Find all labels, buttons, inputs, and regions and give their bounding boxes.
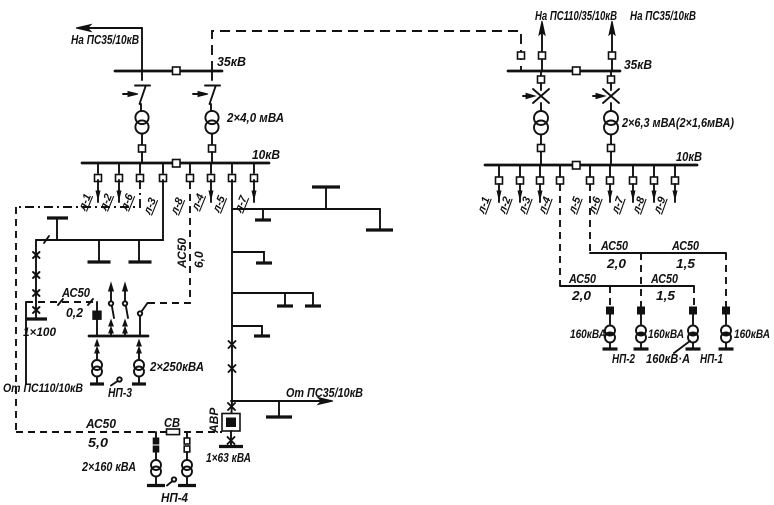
- wire: dashed tie from left 35kV bus to right substation: [212, 31, 521, 71]
- load tap T at x=99: [88, 240, 111, 262]
- ticks on trunk: [228, 341, 236, 410]
- load tap T at x=285: [277, 293, 293, 306]
- breaker below T2: [209, 145, 216, 152]
- svg-text:10кВ: 10кВ: [676, 149, 702, 164]
- wire: dashed drop at x=641: [640, 253, 642, 307]
- switch S3 to AC50 6,0 at x=140: [138, 303, 148, 336]
- wire: dash-dot from feeder l-6 down-left to margin: [16, 180, 140, 207]
- feeder l-2: [97, 163, 122, 213]
- transformer drop NP-3 #2 at x=139: [132, 340, 146, 384]
- NP-4 drop #2 at x=187: [178, 432, 196, 486]
- svg-text:5,0: 5,0: [88, 435, 109, 450]
- feeder r l-9: [651, 165, 678, 216]
- transformer branch T3 right (x=541): [523, 71, 549, 165]
- wire: lower AC50 line: [560, 285, 694, 287]
- fuse-disconnector X: [533, 89, 549, 103]
- svg-text:На ПС35/10кВ: На ПС35/10кВ: [71, 32, 139, 47]
- svg-text:1×63 кВА: 1×63 кВА: [206, 450, 251, 465]
- consumer unit NP at x=726: [719, 307, 734, 349]
- svg-text:10кВ: 10кВ: [252, 147, 280, 162]
- transformer branch T4 right (x=611): [593, 71, 619, 165]
- feeder l-6: [118, 163, 143, 213]
- wire: riser to PS110/35/10kV with up arrow: [539, 21, 546, 71]
- breaker on 10kV left bus: [173, 160, 181, 168]
- feeder r l-5: [566, 165, 593, 216]
- wire: dashed from l-5 down: [589, 184, 591, 253]
- svg-text:2×4,0 мВА: 2×4,0 мВА: [226, 110, 284, 125]
- svg-text:1,5: 1,5: [656, 288, 676, 303]
- AVR device (square in square, filled): [222, 414, 240, 432]
- wire: l-5 trunk: [231, 180, 233, 401]
- svg-text:2×250кВА: 2×250кВА: [149, 359, 204, 374]
- svg-text:6,0: 6,0: [192, 251, 206, 268]
- bus 35kV left: [115, 70, 222, 73]
- svg-text:НП-3: НП-3: [108, 385, 133, 400]
- svg-text:АВР: АВР: [207, 407, 221, 434]
- load tap T at x=279 under arrow line: [266, 401, 292, 417]
- svg-text:35кВ: 35кВ: [217, 54, 246, 69]
- svg-text:На ПС35/10кВ: На ПС35/10кВ: [630, 8, 696, 23]
- load tap T on dash line: [47, 218, 68, 240]
- bus 10kV left: [82, 162, 269, 165]
- branch B1 at y=209: [232, 208, 380, 210]
- load tap T up at x=326: [312, 187, 340, 209]
- svg-text:АС50: АС50: [61, 285, 91, 300]
- branch B2 at y=252: [232, 252, 272, 263]
- bus 35kV right: [508, 70, 620, 73]
- svg-text:1×100: 1×100: [23, 325, 56, 339]
- feeder l-7: [232, 163, 257, 215]
- svg-text:1,5: 1,5: [676, 256, 696, 271]
- svg-text:НП-1: НП-1: [700, 351, 723, 366]
- tick on line: [44, 236, 49, 243]
- feeder l-8: [168, 163, 193, 217]
- wire: upper AC50 line: [590, 252, 726, 254]
- svg-text:На ПС110/35/10кВ: На ПС110/35/10кВ: [535, 8, 617, 23]
- wire: dashed AC50 5,0 line to AVR: [16, 431, 222, 433]
- wire: riser from arrow to 35kV bus: [141, 28, 143, 71]
- bus NP-3: [89, 335, 148, 338]
- svg-text:АС50: АС50: [650, 271, 678, 286]
- svg-text:АС50: АС50: [600, 238, 628, 253]
- section breaker SV: [167, 429, 180, 435]
- wire: left margin dashed riser: [15, 207, 17, 432]
- feeder l-4: [189, 163, 214, 213]
- line AC50 0,2 dashed: [26, 301, 97, 303]
- transformer 1x63 kVA below AVR: [219, 431, 243, 447]
- wire: riser to PS35/10kV with up arrow: [609, 21, 616, 71]
- consumer unit NP at x=693: [686, 307, 701, 349]
- transformer T1 2x4.0MVA: [135, 111, 148, 124]
- disconnector QS1: [135, 71, 150, 111]
- fuse-disconnector X: [603, 89, 619, 103]
- svg-text:От ПС35/10кВ: От ПС35/10кВ: [286, 385, 363, 400]
- feeder l-5: [210, 163, 235, 215]
- wire: feeder l-3 trunk down and left: [36, 180, 163, 240]
- breaker on dashed tie entry: [518, 52, 525, 59]
- svg-text:АС50: АС50: [671, 238, 699, 253]
- wire: line to PS35/10kV with arrow: [76, 25, 142, 32]
- wire: feed from PS110/10kV riser: [25, 302, 27, 384]
- feeder r l-3: [516, 165, 543, 216]
- feeder r l-2: [496, 165, 523, 216]
- sectionalizer hook between NP-3 transformers: [111, 377, 122, 385]
- transformer branch T1 left (x=142): [123, 71, 150, 163]
- svg-text:От ПС110/10кВ: От ПС110/10кВ: [3, 381, 83, 395]
- svg-text:АС50: АС50: [175, 238, 189, 269]
- feeder r l-1: [475, 165, 502, 216]
- disconnector QS2: [205, 71, 220, 111]
- wire: dashed drop at x=610: [609, 286, 611, 307]
- svg-text:2,0: 2,0: [606, 256, 627, 271]
- bus 10kV right: [485, 164, 697, 167]
- svg-text:НП-2: НП-2: [612, 351, 636, 366]
- svg-text:160кВ·А: 160кВ·А: [646, 351, 690, 366]
- consumer unit NP at x=610: [603, 307, 618, 349]
- feeder r l-6: [586, 165, 613, 216]
- svg-text:35кВ: 35кВ: [624, 57, 652, 72]
- fuse F1 (filled) on drop to NP-3 bus: [93, 302, 101, 336]
- svg-text:АС50: АС50: [568, 271, 596, 286]
- transformer T4: [604, 111, 618, 125]
- transformer T3: [534, 111, 548, 125]
- load tap T at end x=380: [366, 209, 393, 230]
- incoming switch S2 at x=125: [123, 283, 128, 336]
- svg-text:АС50: АС50: [85, 416, 117, 431]
- sectionalizer hook NP-4: [167, 477, 176, 485]
- consumer unit NP at x=641: [634, 307, 649, 349]
- feeder r l-8: [630, 165, 657, 216]
- breaker on 35kV right bus: [573, 67, 581, 75]
- branch B3 at y=293: [232, 292, 313, 294]
- breaker below T1: [139, 145, 146, 152]
- svg-text:СВ: СВ: [164, 415, 180, 430]
- branch B4 at y=326: [232, 326, 270, 336]
- wire: dashed drop to NP-1 at x=726: [725, 253, 727, 307]
- svg-text:0,2: 0,2: [66, 305, 84, 320]
- transformer T2: [205, 111, 218, 124]
- load tap T at x=139: [129, 240, 152, 262]
- svg-text:160кВА: 160кВА: [734, 327, 770, 341]
- svg-text:2,0: 2,0: [571, 288, 592, 303]
- transformer drop NP-3 #1 at x=97: [90, 340, 104, 384]
- feeder r l-4: [536, 165, 563, 216]
- breaker Q on 35kV left bus: [173, 67, 181, 75]
- incoming switch S1 at x=111: [109, 283, 114, 336]
- svg-text:160кВА: 160кВА: [570, 327, 606, 341]
- feeder r l-7: [609, 165, 636, 216]
- breaker on 10kV right bus: [573, 162, 581, 170]
- wire: dashed AC50 6,0 from l-8 down to S3: [148, 182, 190, 303]
- svg-text:160кВА: 160кВА: [648, 327, 684, 341]
- load tap T at x=313: [305, 293, 321, 306]
- wire: dashed from l-4 down: [559, 184, 561, 286]
- wire: Ot PS35/10kV with arrow: [232, 398, 333, 405]
- svg-text:2×6,3 мВА(2×1,6мВА): 2×6,3 мВА(2×1,6мВА): [621, 116, 734, 130]
- feeder l-3: [141, 163, 166, 217]
- wire: dashed drop at x=694: [693, 286, 695, 307]
- branch to 1x100 tap with section ticks: [26, 240, 47, 319]
- NP-4 drop #1 at x=156: [147, 432, 165, 486]
- load tap T down at x=263: [255, 209, 271, 220]
- svg-text:НП-4: НП-4: [161, 490, 189, 505]
- svg-text:2×160 кВА: 2×160 кВА: [81, 459, 136, 474]
- feeder l-1: [76, 163, 101, 213]
- transformer branch T2 left (x=212): [193, 71, 220, 163]
